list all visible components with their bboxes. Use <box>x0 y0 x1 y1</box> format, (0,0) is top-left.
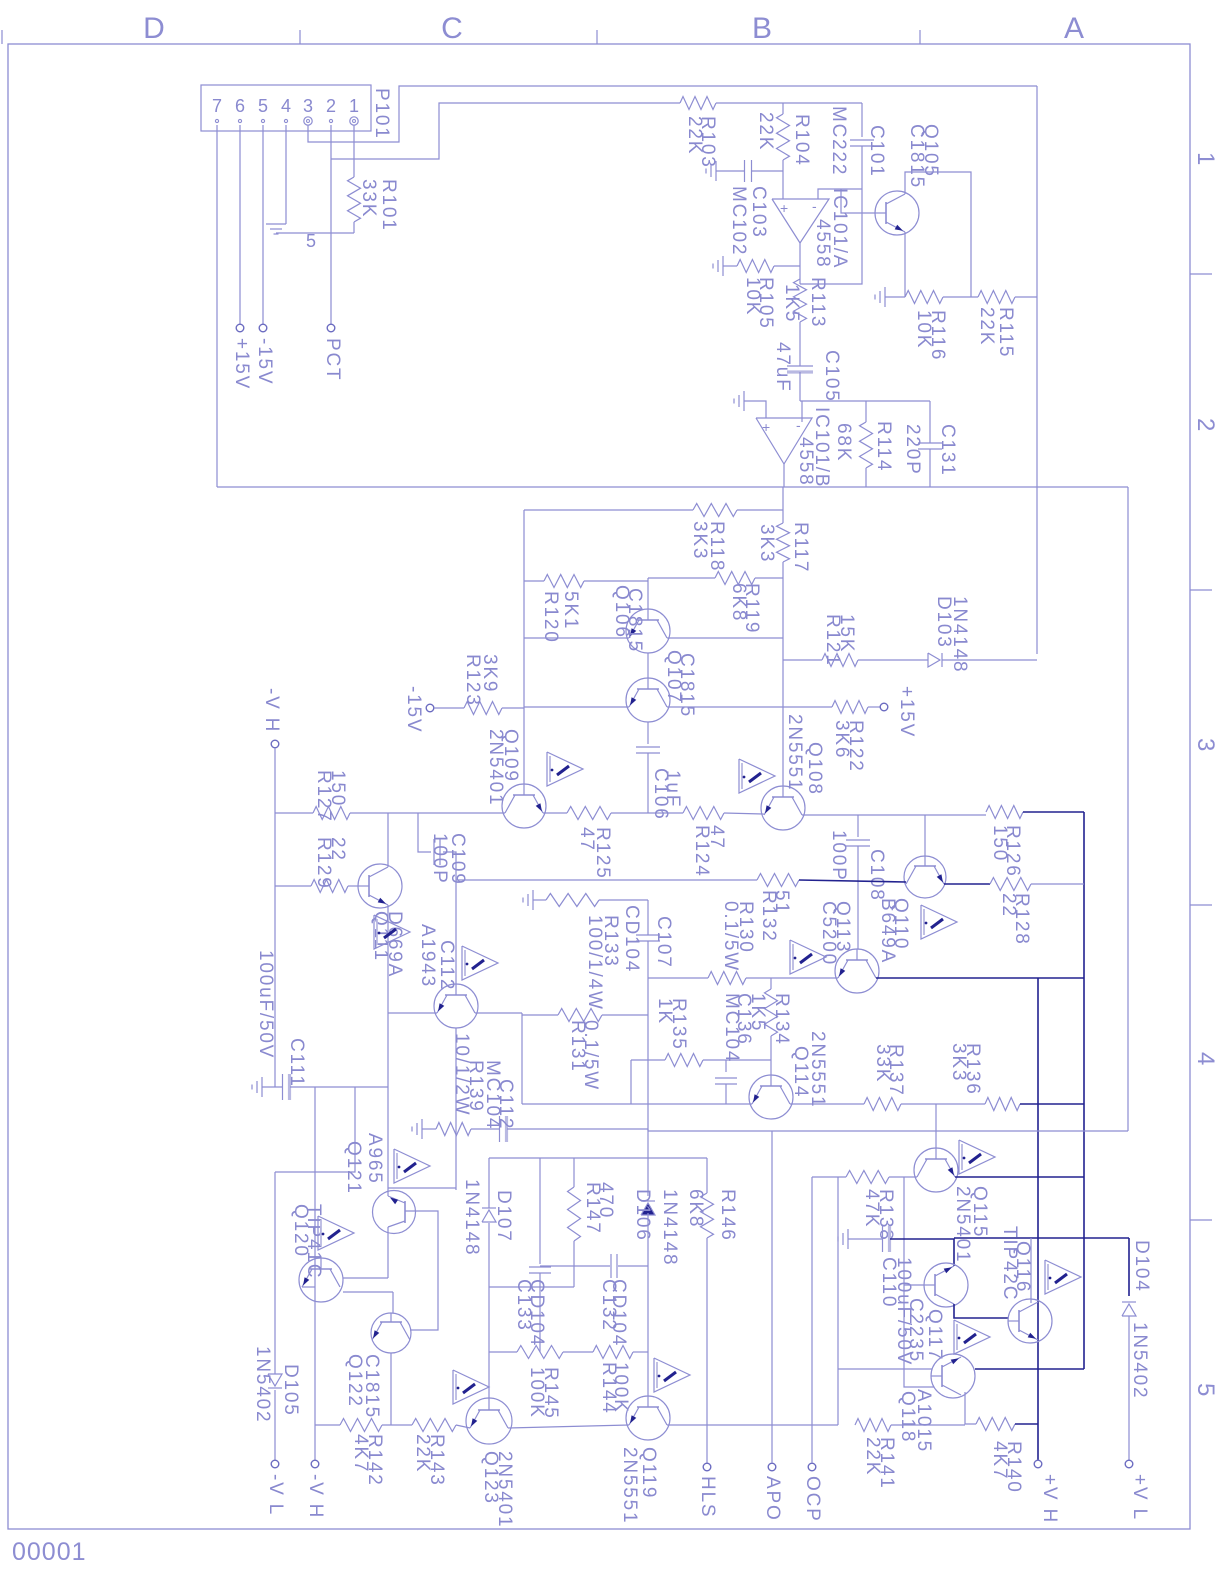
resistor R118 <box>693 504 737 517</box>
wire right rail from pin3 <box>1036 86 1038 654</box>
svg-text:C2235: C2235 <box>905 1298 926 1363</box>
svg-text:150: 150 <box>327 770 348 807</box>
svg-text:A1943: A1943 <box>417 924 438 988</box>
svg-text:R137: R137 <box>885 1044 906 1097</box>
svg-text:-15V: -15V <box>403 686 424 733</box>
terminal -V H bottom <box>311 1460 319 1468</box>
ground at R133 <box>532 890 534 910</box>
wire Q112 bottom to Q121 <box>455 1028 457 1190</box>
svg-text:-V L: -V L <box>265 1474 286 1516</box>
svg-text:47: 47 <box>706 825 727 850</box>
warning triangle at Q108 <box>739 759 775 793</box>
wire feedback via C101 <box>800 189 862 284</box>
svg-text:3: 3 <box>1192 738 1219 753</box>
svg-text:C101: C101 <box>866 125 887 178</box>
svg-text:R120: R120 <box>540 591 561 644</box>
wire emitter row to R127 <box>275 812 313 814</box>
wire +V L rail right <box>1127 487 1129 1131</box>
svg-text:2N5551: 2N5551 <box>807 1031 828 1108</box>
svg-text:R146: R146 <box>717 1189 738 1242</box>
transistor Q105 <box>875 191 919 235</box>
svg-text:1uF: 1uF <box>662 770 683 808</box>
transistor Q113 <box>835 949 879 993</box>
resistor R132 <box>757 874 799 887</box>
svg-text:+: + <box>762 419 770 435</box>
wire R123 to rail <box>502 707 524 709</box>
svg-text:+15V: +15V <box>896 686 917 738</box>
wire node C105 to C131 top <box>800 400 930 402</box>
svg-text:Q121: Q121 <box>343 1141 364 1195</box>
wire APO up <box>771 1131 773 1463</box>
resistor R136 <box>985 1098 1020 1111</box>
capacitor C110 100uF/50V <box>882 1226 884 1252</box>
diode D103 1N4148 <box>928 653 940 667</box>
wire pin4 to ground <box>285 125 287 218</box>
wire Q112 to R131 row <box>475 1012 522 1014</box>
svg-text:+V H: +V H <box>1039 1474 1060 1524</box>
resistor R117 <box>777 523 790 562</box>
ground at C111 <box>261 1077 263 1097</box>
wire Q109 to R125 <box>543 812 567 814</box>
svg-text:R118: R118 <box>706 521 727 572</box>
wire R134 to Q114 <box>770 1036 772 1075</box>
wire R101 bottom row <box>276 232 354 234</box>
svg-text:4: 4 <box>281 96 291 116</box>
svg-text:4558: 4558 <box>812 219 833 268</box>
warning triangle at Q120 <box>318 1216 354 1250</box>
capacitor C107 CD104 <box>636 934 660 936</box>
svg-text:Q119: Q119 <box>638 1447 659 1499</box>
svg-text:R122: R122 <box>845 720 866 773</box>
wire R143 to Q123 <box>456 1425 470 1428</box>
resistor R130 <box>708 972 746 985</box>
wire Q118 emitter to R140 <box>965 1392 976 1424</box>
resistor R101 <box>348 177 361 222</box>
wire Q115 stem from R137 node <box>935 1104 937 1148</box>
wire -15V to R123 <box>434 707 464 709</box>
warning triangle at Q123 <box>453 1370 489 1404</box>
diode D104 1N5402 <box>1128 1238 1130 1296</box>
svg-text:1N4148: 1N4148 <box>659 1189 680 1266</box>
svg-text:Q117: Q117 <box>924 1309 945 1361</box>
svg-text:R117: R117 <box>790 522 811 573</box>
svg-text:+15V: +15V <box>231 338 252 390</box>
svg-text:100P: 100P <box>828 830 849 882</box>
wire Q122 base stem up <box>392 1292 394 1313</box>
svg-text:1: 1 <box>1192 152 1219 167</box>
diode D106 1N4148 <box>641 1203 655 1215</box>
P101 pin 6 contact <box>238 119 241 122</box>
svg-text:1N4148: 1N4148 <box>949 596 970 673</box>
terminal +15V left <box>236 324 244 332</box>
terminal -15V mid <box>426 704 434 712</box>
svg-text:MC102: MC102 <box>728 186 749 256</box>
wire IC101/B output <box>783 464 785 487</box>
capacitor C105 47uF <box>787 365 813 367</box>
wire Q105 collector <box>905 172 971 297</box>
wire Q111 emitter down <box>387 905 389 1013</box>
capacitor C109 100P <box>418 813 431 852</box>
border tick right 2/3 <box>1190 589 1212 591</box>
dark wire R132 to Q110 base <box>799 880 906 882</box>
wire pin3 bend to top rail <box>308 86 1037 142</box>
capacitor C106 1uF <box>647 722 649 744</box>
wire R103 to C101 node <box>716 102 862 104</box>
resistor R145 <box>489 1351 517 1353</box>
ground at R116 <box>884 287 886 307</box>
svg-text:R116: R116 <box>927 310 948 361</box>
svg-text:5: 5 <box>258 96 268 116</box>
wire link to Q112 column <box>388 1187 456 1189</box>
terminal APO <box>768 1463 776 1471</box>
wire R116 R115 <box>943 296 978 298</box>
warning triangle at Q115 <box>959 1140 995 1174</box>
svg-text:Q118: Q118 <box>897 1391 918 1443</box>
wire R104 to opamp + input <box>782 160 784 199</box>
svg-text:C112: C112 <box>436 940 457 991</box>
wire Q106 base stem <box>647 578 649 609</box>
svg-text:HLS: HLS <box>697 1476 718 1518</box>
wire Q121 base to Q122 collector <box>405 1211 438 1330</box>
transistor Q112 <box>434 984 478 1028</box>
transistor Q108 <box>761 786 805 830</box>
P101 pin 1 contact <box>350 117 358 125</box>
svg-text:2: 2 <box>326 96 336 116</box>
wire centre rail down <box>647 978 649 1131</box>
svg-text:4: 4 <box>1192 1052 1219 1067</box>
resistor R133 <box>546 894 599 907</box>
svg-text:-: - <box>812 198 817 214</box>
svg-text:C105: C105 <box>821 350 842 403</box>
svg-text:7: 7 <box>212 96 222 116</box>
dark wire C110 to Q117 emitter <box>890 1239 954 1266</box>
transistor Q121 <box>373 1191 416 1234</box>
transistor Q123 <box>466 1398 512 1444</box>
wire output emitter row <box>315 1424 340 1426</box>
wire OCP up to R138 <box>811 1177 813 1463</box>
op-amp IC101/B <box>756 418 812 464</box>
svg-text:R134: R134 <box>771 993 792 1046</box>
border tick top edge <box>1 30 3 44</box>
svg-text:C111: C111 <box>286 1038 307 1088</box>
wire mid row to +V L rail <box>648 1130 1128 1132</box>
svg-text:R103: R103 <box>697 116 718 169</box>
diode D105 1N5402 <box>274 1172 276 1374</box>
wire R127 to Q109 <box>418 812 505 814</box>
wire Q108 emitter row <box>802 814 986 816</box>
svg-text:Q110: Q110 <box>890 898 911 950</box>
svg-text:PCT: PCT <box>322 338 343 381</box>
wire R115 to rail <box>1015 296 1037 298</box>
resistor R139 <box>436 1123 471 1136</box>
transistor Q110 <box>904 856 946 898</box>
svg-text:C112: C112 <box>495 1079 516 1130</box>
wire minus input feedback IC101/A <box>818 189 862 199</box>
border tick right 4/5 <box>1190 1219 1212 1221</box>
resistor R137 <box>864 1098 901 1111</box>
wire R135 left drop <box>630 1060 632 1104</box>
wire Q107 right leg to R122 <box>667 706 832 708</box>
resistor R135 <box>665 1054 703 1067</box>
wire Q106 left leg to rail <box>524 637 629 639</box>
transistor Q116 TIP42C <box>1008 1299 1052 1343</box>
resistor R126 <box>986 806 1023 819</box>
svg-text:3K3: 3K3 <box>756 524 777 563</box>
svg-text:P101: P101 <box>371 88 392 140</box>
resistor R131 <box>558 1009 602 1022</box>
svg-text:6: 6 <box>235 96 245 116</box>
resistor R104 <box>777 114 790 160</box>
P101 pin 3 contact <box>304 117 312 125</box>
svg-text:D104: D104 <box>1131 1240 1152 1293</box>
wire R145 to R144 <box>563 1351 593 1353</box>
dark wire R126 to rail <box>1023 811 1084 813</box>
capacitor C133 CD104 <box>539 1158 541 1264</box>
svg-text:2N5401: 2N5401 <box>952 1186 973 1263</box>
svg-text:-V H: -V H <box>261 688 282 733</box>
capacitor C112 MC104 <box>499 1116 501 1142</box>
svg-text:5K1: 5K1 <box>560 591 581 630</box>
wire left bias rail <box>523 510 525 784</box>
wire Q114 right leg <box>790 1103 864 1105</box>
dark wire Q115 emitter to rail <box>955 1176 1084 1178</box>
ground at IC101/B plus input <box>743 391 745 411</box>
dark wire R140 to +V H <box>1015 1423 1038 1425</box>
border tick right 3/4 <box>1190 904 1212 906</box>
wire C132 row <box>540 1265 610 1267</box>
wire Q120 lower leg to Q122 base <box>343 1291 393 1293</box>
connector P101 box <box>201 85 371 131</box>
dark wire Q117 to Q116 base <box>954 1304 1008 1318</box>
terminal -V L bottom <box>271 1460 279 1468</box>
svg-text:4558: 4558 <box>795 437 816 486</box>
border tick top D/C <box>299 30 301 44</box>
svg-text:47uF: 47uF <box>772 342 793 393</box>
border tick right 1/2 <box>1190 273 1212 275</box>
transistor Q119 <box>626 1396 670 1440</box>
wire opamp A output <box>799 243 801 284</box>
dark right rail <box>1083 812 1085 1369</box>
border tick top C/B <box>596 30 598 44</box>
terminal OCP <box>808 1463 816 1471</box>
svg-text:22K: 22K <box>755 112 776 151</box>
P101 pin 2 contact <box>329 119 332 122</box>
resistor R125 <box>567 807 611 820</box>
svg-text:C107: C107 <box>653 916 674 969</box>
svg-text:D107: D107 <box>493 1190 514 1243</box>
resistor R115 <box>978 291 1015 304</box>
wire Q119 to HLS and R141 row <box>667 1424 838 1426</box>
warning triangle at Q109 <box>547 752 583 786</box>
svg-text:2: 2 <box>1192 418 1219 433</box>
transistor Q109 <box>502 784 546 828</box>
warning triangle at Q113 <box>790 940 826 974</box>
svg-text:R126: R126 <box>1002 825 1023 878</box>
wire pin6 to +15V terminal <box>239 125 241 324</box>
svg-text:C131: C131 <box>937 424 958 477</box>
resistor R120 <box>544 575 584 588</box>
resistor R123 <box>464 702 502 715</box>
svg-text:1N4148: 1N4148 <box>461 1179 482 1256</box>
svg-text:1N5402: 1N5402 <box>1129 1322 1150 1399</box>
capacitor C108 100P <box>857 815 859 837</box>
svg-text:OCP: OCP <box>802 1476 823 1523</box>
resistor R144 <box>593 1346 633 1359</box>
svg-text:R141: R141 <box>876 1437 897 1490</box>
svg-text:R101: R101 <box>378 179 399 232</box>
capacitor C131 220P <box>929 401 931 443</box>
wire Q123 to Q119 <box>508 1425 629 1428</box>
P101 pin 7 contact <box>215 119 218 122</box>
svg-text:R105: R105 <box>755 277 776 330</box>
svg-text:470: 470 <box>595 1182 616 1219</box>
warning triangle at Q116 <box>1045 1260 1081 1294</box>
svg-text:220P: 220P <box>902 424 923 476</box>
wire Q120 left leg to rail <box>302 1286 315 1288</box>
svg-text:R104: R104 <box>791 114 812 167</box>
svg-text:R143: R143 <box>426 1434 447 1487</box>
svg-text:2N5551: 2N5551 <box>784 714 805 791</box>
wire Q112 base from R132 node <box>455 880 457 984</box>
svg-text:APO: APO <box>762 1476 783 1522</box>
wire pin1 to R101 <box>353 125 355 177</box>
transistor Q115 <box>914 1148 958 1192</box>
svg-text:1K5: 1K5 <box>781 284 802 323</box>
svg-text:CD104: CD104 <box>621 905 642 973</box>
terminal +V L <box>1125 1460 1133 1468</box>
ground at R139 <box>421 1119 423 1139</box>
wire left node down <box>521 1013 523 1104</box>
svg-text:R125: R125 <box>592 827 613 880</box>
resistor R142 <box>340 1419 382 1432</box>
svg-text:R138: R138 <box>875 1189 896 1242</box>
wire pin2 to PCT terminal <box>330 125 332 324</box>
svg-text:Q105: Q105 <box>920 124 941 178</box>
warning triangle at Q112 <box>462 946 498 980</box>
svg-text:100K: 100K <box>610 1362 631 1414</box>
wire Q114 left leg <box>522 1103 752 1105</box>
wire pin5 to -15V terminal <box>262 125 264 324</box>
svg-text:Q116: Q116 <box>1012 1241 1033 1293</box>
wire Q106 Q107 stems <box>647 653 649 678</box>
ground at C103 <box>715 161 717 181</box>
resistor R140 <box>976 1418 1015 1431</box>
op-amp IC101/A <box>772 199 829 243</box>
wire R132 left to Q112 base node <box>456 879 757 881</box>
wire Q118 base row <box>838 1368 932 1370</box>
svg-text:5: 5 <box>1192 1383 1219 1398</box>
terminal +V H <box>1034 1460 1042 1468</box>
svg-text:5: 5 <box>306 231 316 251</box>
svg-text:-: - <box>796 417 801 433</box>
wire -V H bottom rail <box>314 1087 316 1460</box>
svg-text:68K: 68K <box>833 423 854 462</box>
svg-text:2N5401: 2N5401 <box>494 1451 515 1528</box>
terminal -15V left <box>259 324 267 332</box>
resistor R129 <box>311 880 348 893</box>
svg-text:CD104: CD104 <box>608 1279 629 1347</box>
dark wire Q110 emitter to R128 <box>944 883 990 885</box>
resistor R147 <box>568 1187 581 1241</box>
svg-text:C: C <box>441 12 465 45</box>
svg-text:Q109: Q109 <box>500 729 521 783</box>
transistor Q117 <box>924 1263 968 1307</box>
svg-text:R130: R130 <box>735 901 756 954</box>
ground at R105 <box>722 256 724 276</box>
svg-text:A965: A965 <box>364 1133 385 1185</box>
svg-text:R145: R145 <box>540 1367 561 1420</box>
warning triangle at Q121 <box>394 1149 430 1183</box>
wire Q107 left leg to rail <box>524 706 629 708</box>
capacitor C132 CD104 <box>610 1254 612 1278</box>
svg-text:R142: R142 <box>364 1434 385 1487</box>
dark wire R136 to rail <box>1020 1103 1084 1105</box>
diode D107 1N4148 <box>482 1210 496 1222</box>
border tick top B/A <box>919 30 921 44</box>
wire long output row <box>217 486 1128 488</box>
resistor R113 <box>794 279 807 322</box>
svg-text:C1815: C1815 <box>624 588 645 653</box>
resistor R124 <box>648 812 683 814</box>
svg-text:-V H: -V H <box>305 1474 326 1519</box>
svg-text:R113: R113 <box>807 277 828 328</box>
wire Q111 emitter rail to C111 <box>387 1013 389 1087</box>
warning triangle at Q119 <box>654 1358 690 1392</box>
wire Q105 base <box>841 189 875 213</box>
svg-text:3K9: 3K9 <box>479 654 500 693</box>
dark wire to +V rail and D104 <box>954 1237 1129 1239</box>
dark +V H rail <box>1037 978 1039 1460</box>
svg-text:R133: R133 <box>600 915 621 968</box>
wire D105 branch <box>275 1087 355 1172</box>
wire minus input IC101/B <box>801 401 803 422</box>
svg-text:3: 3 <box>303 96 313 116</box>
svg-text:00001: 00001 <box>12 1538 87 1566</box>
transistor Q107 <box>626 678 670 722</box>
transistor Q118 A1015 <box>931 1354 975 1398</box>
resistor R122 <box>832 701 868 714</box>
svg-text:R140: R140 <box>1003 1441 1024 1494</box>
svg-text:1N5402: 1N5402 <box>252 1346 273 1423</box>
svg-text:C1815: C1815 <box>361 1354 382 1419</box>
svg-text:15K: 15K <box>836 614 857 653</box>
svg-text:100P: 100P <box>429 833 450 885</box>
transistor Q122 <box>371 1313 411 1353</box>
svg-text:22K: 22K <box>976 307 997 346</box>
wire D107 top row <box>489 1157 707 1159</box>
warning triangle at Q111 <box>374 915 410 949</box>
resistor R116 <box>885 296 905 298</box>
wire Q105 emitter <box>904 232 906 297</box>
terminal -V H top <box>271 740 279 748</box>
wire Q123 stem up <box>488 1223 490 1398</box>
svg-text:D106: D106 <box>632 1189 653 1242</box>
transistor Q106 <box>626 609 670 653</box>
svg-text:33K: 33K <box>358 179 379 218</box>
P101 pin 4 contact <box>284 119 287 122</box>
terminal HLS <box>703 1463 711 1471</box>
svg-text:C103: C103 <box>748 186 769 239</box>
resistor R119 <box>715 572 755 585</box>
svg-text:D: D <box>143 12 167 45</box>
svg-text:0.1/5W: 0.1/5W <box>580 1020 601 1091</box>
svg-text:C1815: C1815 <box>676 653 697 718</box>
svg-text:C109: C109 <box>447 833 468 886</box>
svg-text:-15V: -15V <box>254 338 275 385</box>
wire plus input IC101/B <box>744 401 766 418</box>
dark wire Q113 emitter row <box>876 977 1084 979</box>
svg-text:R115: R115 <box>995 307 1016 358</box>
